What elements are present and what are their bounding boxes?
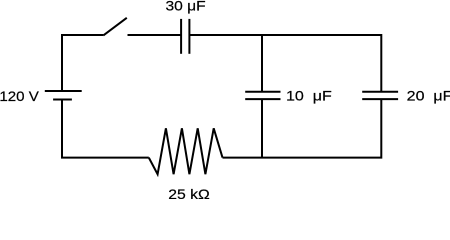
svg-text:25 kΩ: 25 kΩ (168, 186, 210, 199)
svg-text:20 μF: 20 μF (407, 88, 450, 104)
svg-text:10 μF: 10 μF (286, 88, 332, 104)
svg-text:120 V: 120 V (0, 88, 40, 104)
svg-text:30 μF: 30 μF (166, 0, 206, 14)
